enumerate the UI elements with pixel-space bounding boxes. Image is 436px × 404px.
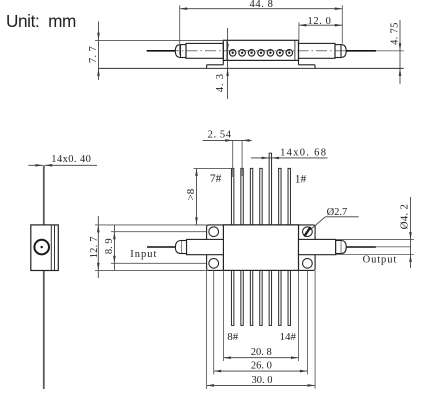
output boot dome — [341, 241, 346, 254]
left ear top — [207, 64, 224, 66]
pin circle 1 — [229, 50, 236, 57]
dimension 14x0.68 (pin width) — [251, 148, 328, 160]
pin 13# — [279, 270, 281, 325]
left boot cylinder — [186, 43, 223, 58]
plan body — [223, 225, 298, 271]
pin 9# — [241, 270, 243, 325]
mounting hole bottom-right — [303, 258, 313, 268]
end-view body rectangle — [31, 225, 59, 271]
dimension 26.0 — [214, 270, 308, 374]
svg-text:8. 9: 8. 9 — [104, 238, 115, 254]
dimension 12.7 — [89, 216, 207, 278]
svg-text:12. 7: 12. 7 — [89, 236, 100, 258]
svg-text:Unit: mm: Unit: mm — [6, 11, 76, 31]
package body (side view) — [223, 40, 298, 60]
input boot dome — [175, 241, 181, 254]
svg-text:1#: 1# — [295, 173, 307, 185]
svg-text:4. 3: 4. 3 — [215, 73, 226, 92]
pin 1# — [288, 168, 290, 225]
svg-text:>8: >8 — [185, 188, 197, 200]
output boot cylinder — [299, 239, 342, 254]
body inner wall right — [294, 40, 296, 60]
right boot ring — [335, 45, 341, 58]
body inner wall left — [226, 40, 228, 60]
pin row edge-on (vertical gray line, upper) — [43, 165, 45, 225]
dimension 8.9 — [104, 225, 207, 270]
dimension dia 2.7 leader — [304, 207, 358, 236]
svg-text:26. 0: 26. 0 — [251, 361, 272, 372]
end-view boot circle — [34, 240, 49, 255]
dimension 4.75 — [389, 20, 401, 84]
pin circle 3 — [248, 50, 255, 57]
mounting baseline / bottom extension line — [99, 67, 404, 69]
right ear edge — [314, 65, 316, 69]
svg-text:Output: Output — [363, 255, 398, 266]
svg-text:7. 7: 7. 7 — [88, 46, 99, 63]
left boot dome tip — [175, 45, 180, 58]
mounting hole top-right — [303, 227, 313, 237]
svg-text:Ø4. 2: Ø4. 2 — [398, 204, 410, 229]
dimension >8 (pin length) — [185, 168, 232, 225]
pin circle 7 — [286, 50, 293, 57]
pin circle 5 — [267, 50, 274, 57]
dimension 44.8 — [180, 0, 343, 55]
top pins row (7#..1#) — [231, 153, 290, 225]
pin circles (side view, 7 pins) — [229, 50, 292, 57]
svg-text:2. 54: 2. 54 — [208, 130, 232, 141]
svg-text:12. 0: 12. 0 — [308, 16, 332, 27]
left boot ring — [181, 45, 187, 58]
pin 10# — [250, 270, 252, 325]
bottom pins row (8#..14#) — [231, 270, 290, 325]
boot bottom extension line (for dia 4.2) — [336, 254, 414, 256]
end-view base plate line 2 — [54, 225, 56, 271]
centerline extension to 4.75 dim — [374, 50, 404, 52]
svg-text:20. 8: 20. 8 — [251, 347, 272, 358]
end-view base plate line 1 — [50, 225, 52, 271]
right boot cylinder — [299, 43, 336, 58]
pin 11# — [260, 270, 262, 325]
svg-text:4. 75: 4. 75 — [389, 22, 400, 45]
right boot dome tip — [341, 45, 346, 58]
svg-text:7#: 7# — [210, 173, 222, 185]
leader arrow slash through hole — [304, 227, 310, 236]
dimension 7.7 — [88, 22, 223, 81]
pin 7# — [231, 168, 233, 225]
base block right side — [298, 60, 300, 64]
pin 6# — [241, 168, 243, 225]
pin 4# — [260, 168, 262, 225]
pin 12# — [269, 270, 271, 325]
dimension dia 4.2 — [398, 197, 412, 268]
pin circle 6 — [277, 50, 284, 57]
boot top extension line (for dia 4.2) — [336, 239, 414, 241]
svg-text:14#: 14# — [280, 331, 297, 343]
left fiber pigtail — [147, 50, 176, 52]
dimension 20.8 — [223, 270, 298, 361]
pin 14# — [288, 270, 290, 325]
right ear top — [299, 64, 316, 66]
centerline (dash-dot axis) — [168, 50, 352, 52]
input boot ring — [181, 241, 187, 254]
svg-text:14x0. 68: 14x0. 68 — [280, 148, 327, 159]
dimension 14x0.40 — [28, 154, 97, 167]
pin 3# (tall, dimensioned) — [269, 153, 271, 225]
mounting hole bottom-left — [209, 258, 219, 268]
dimension 12.0 — [299, 16, 342, 42]
output fiber — [346, 246, 376, 248]
output centerline extension — [376, 246, 411, 248]
svg-text:30. 0: 30. 0 — [252, 375, 273, 386]
pin row edge-on (vertical gray line, lower) — [43, 271, 45, 390]
right fiber pigtail — [346, 50, 376, 52]
mounting hole top-left — [209, 227, 219, 237]
input boot cylinder — [181, 239, 223, 254]
svg-text:Ø2.7: Ø2.7 — [327, 207, 348, 218]
left ear edge — [206, 65, 208, 69]
svg-text:44. 8: 44. 8 — [250, 0, 274, 10]
svg-text:8#: 8# — [227, 331, 239, 343]
svg-text:Input: Input — [130, 249, 157, 260]
pin 8# — [231, 270, 233, 325]
pin circle 2 — [239, 50, 246, 57]
svg-text:14x0. 40: 14x0. 40 — [51, 154, 91, 165]
end-view fiber dot — [41, 246, 43, 248]
pin circle 4 — [258, 50, 265, 57]
output boot ring — [336, 241, 342, 254]
dimension 4.3 — [215, 28, 229, 99]
base block left side — [222, 60, 224, 64]
dimension 30.0 — [207, 270, 316, 388]
input fiber — [147, 246, 175, 248]
flange with ears (rounded) — [207, 225, 316, 271]
pin 5# — [250, 168, 252, 225]
pin 2# — [279, 168, 281, 225]
dimension 2.54 (pin pitch) — [203, 130, 252, 177]
